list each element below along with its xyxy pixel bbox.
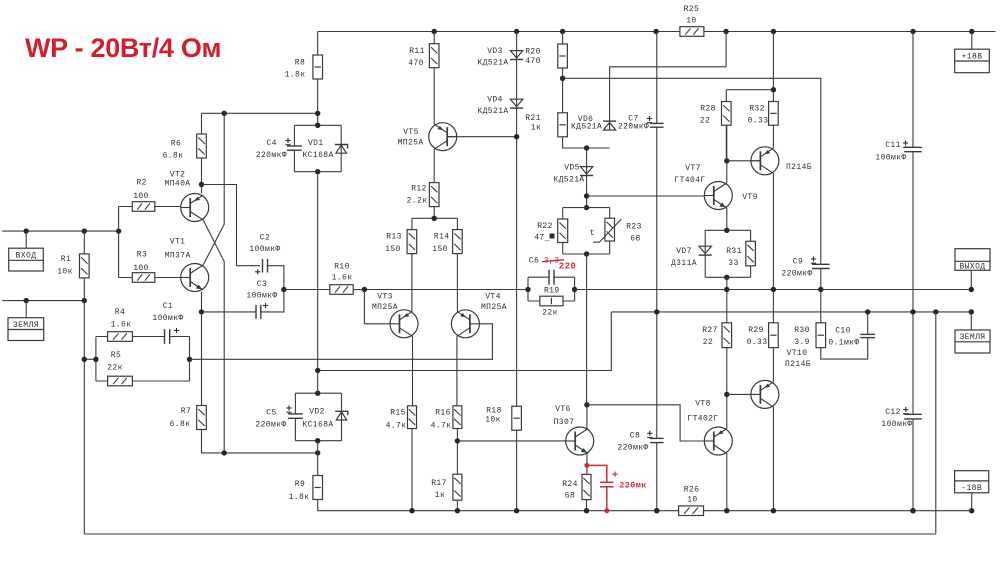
wire VT1 emitter down xyxy=(201,292,203,312)
resistor R30 xyxy=(816,323,826,348)
svg-text:C2: C2 xyxy=(260,234,270,243)
svg-text:КД521А: КД521А xyxy=(477,59,508,68)
wire R1 column to rail2 xyxy=(83,301,85,534)
svg-text:R11: R11 xyxy=(409,47,425,56)
wire VT2 base xyxy=(155,206,181,208)
svg-text:4.7к: 4.7к xyxy=(431,422,452,431)
svg-text:1.8к: 1.8к xyxy=(289,493,310,502)
wire R6 node to C2 xyxy=(202,185,261,266)
wire C4VD1 box bottom xyxy=(294,171,341,173)
node input R1 xyxy=(82,228,87,233)
node R27 output xyxy=(724,287,729,292)
wire VT3 base riser xyxy=(364,290,390,324)
resistor R27 xyxy=(722,323,732,348)
terminal ВХОД xyxy=(9,248,44,271)
wire C8 column xyxy=(656,312,658,511)
wire VT4 emitter col xyxy=(456,336,458,406)
wire R20 stubs xyxy=(562,32,564,113)
resistor R28 xyxy=(722,102,732,126)
wire box3 to output xyxy=(726,277,728,323)
resistor R13 xyxy=(407,230,417,254)
wire R15 down xyxy=(411,429,413,511)
wire R4 C1 links xyxy=(132,336,189,338)
wire R3 to VT1 base xyxy=(155,277,181,279)
svg-text:220мкФ: 220мкФ xyxy=(781,270,812,279)
wire R12 to split xyxy=(412,207,458,230)
terminal ЗЕМЛЯ left xyxy=(8,318,44,341)
wire R2 to VT2 base xyxy=(155,206,181,208)
resistor R4 xyxy=(108,332,133,342)
wire input line xyxy=(2,230,118,232)
capacitor C6 xyxy=(548,270,550,285)
wire R18 down xyxy=(516,430,518,511)
svg-text:150: 150 xyxy=(432,245,448,254)
svg-text:220мк: 220мк xyxy=(619,481,647,491)
node C2C3 xyxy=(281,287,286,292)
svg-text:VT2: VT2 xyxy=(170,170,186,179)
wire gnd mid line xyxy=(318,312,972,371)
resistor R18 xyxy=(512,406,522,430)
node top rail x726.1 xyxy=(723,29,728,34)
red node bottom xyxy=(604,508,609,513)
wire VT5 collector xyxy=(433,149,435,182)
transistor VT4 xyxy=(451,310,479,338)
node loop tap xyxy=(187,357,192,362)
wire VD5 stubs xyxy=(586,148,588,208)
node R16R17 xyxy=(455,438,460,443)
svg-text:6.8к: 6.8к xyxy=(163,152,184,161)
svg-text:VT8: VT8 xyxy=(695,400,711,409)
svg-text:4.7к: 4.7к xyxy=(386,422,407,431)
node VD5 top xyxy=(584,145,589,150)
svg-text:R20: R20 xyxy=(525,48,541,57)
wire R30 top xyxy=(820,290,822,323)
svg-text:П214Б: П214Б xyxy=(786,163,812,172)
wire zobel loop xyxy=(821,338,868,360)
svg-text:R14: R14 xyxy=(434,233,450,242)
svg-text:МП40А: МП40А xyxy=(164,179,190,188)
wire y78 line to C9 xyxy=(563,78,821,264)
svg-text:10: 10 xyxy=(687,496,697,505)
transistor VT3 xyxy=(390,310,418,338)
node box1 bottom xyxy=(315,169,320,174)
svg-text:R12: R12 xyxy=(411,185,427,194)
svg-text:R3: R3 xyxy=(137,251,147,260)
wire R28 to VT9 base xyxy=(725,125,727,161)
terminal ВЫХОД xyxy=(955,249,990,271)
node gnd riser xyxy=(933,309,938,314)
wire VT7 emitter up xyxy=(726,125,728,183)
svg-text:VT1: VT1 xyxy=(170,238,186,247)
node combo top xyxy=(584,205,589,210)
diode VD4 xyxy=(510,99,522,106)
svg-text:R2: R2 xyxy=(136,178,146,187)
svg-text:C8: C8 xyxy=(630,432,640,441)
svg-text:VT10: VT10 xyxy=(787,349,808,358)
wire VT10 collector xyxy=(772,407,774,511)
svg-text:3.9: 3.9 xyxy=(794,338,810,347)
resistor R3 xyxy=(132,273,155,283)
svg-text:22к: 22к xyxy=(542,309,558,318)
svg-text:C12: C12 xyxy=(885,408,901,417)
node R7 line x224 xyxy=(222,450,227,455)
resistor R6 xyxy=(197,134,207,158)
svg-text:ВЫХОД: ВЫХОД xyxy=(959,263,985,272)
svg-text:R16: R16 xyxy=(435,409,451,418)
resistor R17 xyxy=(453,474,462,500)
resistor R11 xyxy=(429,44,439,68)
svg-text:220: 220 xyxy=(559,262,576,272)
svg-text:0.33: 0.33 xyxy=(747,338,768,347)
svg-text:10к: 10к xyxy=(485,416,501,425)
svg-text:1.8к: 1.8к xyxy=(285,71,306,80)
svg-text:22: 22 xyxy=(703,338,713,347)
node C12 rail xyxy=(910,508,915,513)
capacitor C8 xyxy=(650,437,664,439)
svg-text:R27: R27 xyxy=(702,326,718,335)
svg-text:1к: 1к xyxy=(531,124,541,133)
wire VT6 collector xyxy=(586,405,588,429)
wire combo to VT6 xyxy=(586,254,588,405)
wire R21 bottom line xyxy=(563,137,610,148)
node top rail x773.4 xyxy=(771,29,776,34)
svg-text:R17: R17 xyxy=(431,479,447,488)
svg-text:R18: R18 xyxy=(486,407,502,416)
svg-text:П307: П307 xyxy=(554,418,575,427)
wire ground rail2 xyxy=(84,312,936,534)
resistor R5 xyxy=(108,376,133,386)
svg-text:220мкФ: 220мкФ xyxy=(617,444,648,453)
wire R8 column xyxy=(317,32,319,126)
node R20R21 xyxy=(560,76,565,81)
wire emitter cross X xyxy=(203,113,224,453)
wire VT9 collector xyxy=(772,173,774,289)
resistor R32 xyxy=(769,102,779,126)
resistor R1 xyxy=(80,254,90,278)
resistor R12 xyxy=(429,183,439,207)
wire R17 down xyxy=(456,500,458,511)
wire VT8 collector xyxy=(726,454,728,511)
wire R1 stubs xyxy=(83,231,85,301)
svg-text:R15: R15 xyxy=(390,409,406,418)
node C9 output xyxy=(818,287,823,292)
resistor R31 xyxy=(746,241,756,265)
red node top xyxy=(584,463,589,468)
transistor VT2 xyxy=(181,194,209,222)
terminal -18В xyxy=(955,471,989,493)
wire R14 down xyxy=(456,254,458,312)
red wire cap xyxy=(587,465,607,510)
thermistor R23 xyxy=(605,218,615,241)
svg-text:6.8к: 6.8к xyxy=(170,420,191,429)
node y113 a xyxy=(315,111,320,116)
resistor R20 xyxy=(558,44,568,68)
node VT5 base xyxy=(514,134,519,139)
node box3 bottom xyxy=(724,275,729,280)
wire VT9 base xyxy=(727,160,761,162)
svg-text:R19: R19 xyxy=(544,286,560,295)
svg-text:220мкФ: 220мкФ xyxy=(255,421,286,430)
wire VD7R31 box xyxy=(705,230,750,277)
wire R32 column top xyxy=(772,32,774,102)
svg-text:VT4: VT4 xyxy=(485,293,501,302)
wire ВЫХОД stub xyxy=(970,270,972,289)
node top rail x656.1 xyxy=(653,29,658,34)
svg-text:10к: 10к xyxy=(57,268,73,277)
svg-text:68: 68 xyxy=(565,492,575,501)
resistor R7 xyxy=(197,406,207,430)
diode VD5 xyxy=(580,167,592,174)
capacitor C11 xyxy=(904,146,922,148)
svg-text:R13: R13 xyxy=(386,233,402,242)
terminal +18В xyxy=(955,49,990,72)
wire -18В stub xyxy=(971,493,973,511)
node R7 line x318 xyxy=(315,450,320,455)
svg-text:R7: R7 xyxy=(181,407,191,416)
wire VT8 emitter up xyxy=(726,348,728,429)
wire VT10 base xyxy=(727,393,751,395)
node loop right xyxy=(572,287,577,292)
svg-text:100мкФ: 100мкФ xyxy=(249,245,280,254)
svg-text:VT6: VT6 xyxy=(555,405,571,414)
svg-text:VD1: VD1 xyxy=(308,139,324,148)
node VT9 base node xyxy=(724,158,729,163)
wire ground line input xyxy=(2,300,84,302)
svg-text:МП37А: МП37А xyxy=(165,252,191,261)
node box2 bottom xyxy=(315,438,320,443)
wire R29 to VT10 xyxy=(772,348,774,382)
node gnd link a xyxy=(82,357,87,362)
svg-text:220мкФ: 220мкФ xyxy=(256,151,287,160)
svg-text:33: 33 xyxy=(728,259,738,268)
node C8 top gnd xyxy=(654,309,659,314)
resistor R29 xyxy=(769,323,779,348)
svg-text:VD5: VD5 xyxy=(564,164,580,173)
svg-text:R6: R6 xyxy=(171,140,181,149)
resistor R19 xyxy=(540,296,563,306)
red capacitor 220мк xyxy=(600,481,614,483)
node VT1 emitter xyxy=(199,309,204,314)
wire ЗЕМЛЯ right stub xyxy=(970,312,972,330)
node rail1 x457.4 xyxy=(455,508,460,513)
svg-text:КД521А: КД521А xyxy=(477,107,508,116)
resistor R8 xyxy=(313,55,323,79)
wire VT9 emitter xyxy=(772,125,774,148)
wire box1 down column xyxy=(317,172,319,371)
resistor R22 xyxy=(558,219,568,243)
svg-text:R9: R9 xyxy=(295,480,305,489)
svg-text:ГТ402Г: ГТ402Г xyxy=(687,415,718,424)
wire R29 top xyxy=(772,290,774,323)
wire C10 top xyxy=(867,312,869,335)
wire C9 bottom xyxy=(820,269,822,290)
node top rail x913 xyxy=(910,29,915,34)
svg-text:R1: R1 xyxy=(61,255,71,264)
wire C5VD2 box bottom xyxy=(295,440,341,442)
wire R16 R17 link xyxy=(456,429,458,475)
transistor VT7 xyxy=(704,182,732,210)
wire C6R19 loop xyxy=(528,277,575,301)
node box2 top xyxy=(315,391,320,396)
svg-text:R26: R26 xyxy=(684,486,700,495)
node input stub xyxy=(24,228,29,233)
svg-text:ЗЕМЛЯ: ЗЕМЛЯ xyxy=(13,321,39,330)
svg-text:R5: R5 xyxy=(111,351,121,360)
svg-text:КД521А: КД521А xyxy=(553,176,584,185)
svg-text:1к: 1к xyxy=(435,491,445,500)
svg-text:68: 68 xyxy=(630,235,640,244)
node VT9 output xyxy=(771,287,776,292)
capacitor C5 xyxy=(294,393,296,441)
resistor R21 xyxy=(558,113,568,137)
wire loop right node xyxy=(189,337,191,382)
svg-text:470: 470 xyxy=(408,59,424,68)
svg-text:C11: C11 xyxy=(885,141,901,150)
svg-text:C9: C9 xyxy=(793,258,803,267)
svg-text:R32: R32 xyxy=(749,105,765,114)
svg-text:Д311А: Д311А xyxy=(671,259,697,268)
wire output line xyxy=(575,289,972,291)
wire R10 right line xyxy=(353,289,528,291)
capacitor C7 xyxy=(650,122,664,124)
node y370 xyxy=(315,368,320,373)
node R6 bottom xyxy=(199,182,204,187)
svg-text:КС168А: КС168А xyxy=(302,421,333,430)
svg-text:1.6к: 1.6к xyxy=(111,321,132,330)
zener diode VD1 xyxy=(340,125,342,171)
svg-text:R10: R10 xyxy=(334,263,350,272)
svg-text:470: 470 xyxy=(525,57,541,66)
resistor R9 xyxy=(313,476,323,500)
wire C3 right xyxy=(261,290,284,312)
node rail1 x656.8 xyxy=(654,508,659,513)
node input col xyxy=(116,228,121,233)
svg-text:150: 150 xyxy=(385,245,401,254)
transistor VT9 xyxy=(751,147,779,175)
resistor R15 xyxy=(408,406,417,429)
node R24 rail xyxy=(584,508,589,513)
svg-text:1.6к: 1.6к xyxy=(332,274,353,283)
transistor VT8 xyxy=(704,427,732,455)
svg-text:КД521А: КД521А xyxy=(571,123,602,132)
node y113 b xyxy=(222,111,227,116)
wire ЗЕМЛЯ stub xyxy=(25,301,27,318)
svg-text:2.2к: 2.2к xyxy=(407,197,428,206)
node R28R32 xyxy=(771,87,776,92)
svg-text:+18В: +18В xyxy=(962,52,983,61)
diode VD6 xyxy=(603,123,615,130)
resistor R26 xyxy=(679,506,704,516)
node VT7 base line xyxy=(584,193,589,198)
node box3 top xyxy=(724,228,729,233)
svg-text:C4: C4 xyxy=(266,139,276,148)
svg-text:100мкФ: 100мкФ xyxy=(875,154,906,163)
node rail1 x726.8 xyxy=(724,508,729,513)
transistor VT5 xyxy=(429,123,457,151)
svg-text:22к: 22к xyxy=(107,364,123,373)
svg-text:П214Б: П214Б xyxy=(785,360,811,369)
svg-text:100: 100 xyxy=(133,264,149,273)
node gnd stub xyxy=(24,298,29,303)
node C8 bottom xyxy=(654,508,659,513)
svg-text:R31: R31 xyxy=(726,247,742,256)
wire to R10 xyxy=(284,289,330,291)
wire VT6 base line xyxy=(457,440,565,442)
svg-text:VD2: VD2 xyxy=(309,408,325,417)
wire VD6 up to rail xyxy=(610,32,727,131)
svg-text:C10: C10 xyxy=(835,327,851,336)
node rail1 x412 xyxy=(409,508,414,513)
wire input col R2 R3 xyxy=(119,207,133,278)
svg-text:-18В: -18В xyxy=(961,484,982,493)
svg-text:R28: R28 xyxy=(700,105,716,114)
capacitor C12 xyxy=(904,413,922,415)
wire C3 left feed xyxy=(202,311,257,313)
node top rail x516.6 xyxy=(514,29,519,34)
wire R28 top link xyxy=(726,90,773,102)
wire VT7 collector xyxy=(726,208,728,230)
svg-text:0.33: 0.33 xyxy=(748,117,769,126)
svg-text:100мкФ: 100мкФ xyxy=(152,314,183,323)
node gnd right xyxy=(969,309,974,314)
svg-text:VD3: VD3 xyxy=(487,47,503,56)
terminal ЗЕМЛЯ right xyxy=(955,330,990,353)
zener diode VD2 xyxy=(341,393,343,441)
svg-text:VT7: VT7 xyxy=(685,164,701,173)
resistor R14 xyxy=(453,230,463,254)
wire C11C12 column xyxy=(912,32,914,511)
wire VT6 to VT8 base xyxy=(587,405,707,441)
transistor VT6 xyxy=(566,427,594,455)
svg-text:C5: C5 xyxy=(266,409,276,418)
svg-text:C3: C3 xyxy=(257,280,267,289)
node VT6 coll xyxy=(584,402,589,407)
capacitor C10 xyxy=(860,333,875,335)
node C10 gnd xyxy=(865,309,870,314)
node R13R14 split xyxy=(432,216,437,221)
node rail1 x913 xyxy=(910,508,915,513)
svg-text:47_: 47_ xyxy=(534,234,550,243)
svg-text:100: 100 xyxy=(133,192,149,201)
svg-text:R29: R29 xyxy=(748,326,764,335)
wire -18V rail1 right xyxy=(704,510,972,512)
svg-text:0.1мкФ: 0.1мкФ xyxy=(828,339,859,348)
diode VD3 xyxy=(510,51,522,58)
wire +18В stub xyxy=(971,32,973,50)
node rail1 end xyxy=(969,508,974,513)
svg-text:R23: R23 xyxy=(626,222,642,231)
svg-text:100мкФ: 100мкФ xyxy=(246,292,277,301)
wire C7 column xyxy=(656,32,658,312)
transistor VT1 xyxy=(181,264,209,292)
wire VD3VD4 column xyxy=(516,32,518,407)
node rail1 x516.6 xyxy=(514,508,519,513)
transistor VT10 xyxy=(751,380,779,408)
svg-text:VD7: VD7 xyxy=(676,247,692,256)
node top rail x434.2 xyxy=(432,29,437,34)
svg-text:R30: R30 xyxy=(794,326,810,335)
svg-text:100мкФ: 100мкФ xyxy=(881,420,912,429)
wire R7 top column xyxy=(201,312,203,406)
svg-text:R4: R4 xyxy=(115,308,125,317)
wire VT5 base xyxy=(447,136,516,138)
wire R24 down xyxy=(586,500,588,511)
node VT8VT10 base xyxy=(724,392,729,397)
node loop left xyxy=(525,287,530,292)
svg-text:ЗЕМЛЯ: ЗЕМЛЯ xyxy=(959,333,985,342)
capacitor C3 xyxy=(255,305,257,319)
svg-text:ГТ404Г: ГТ404Г xyxy=(674,176,705,185)
